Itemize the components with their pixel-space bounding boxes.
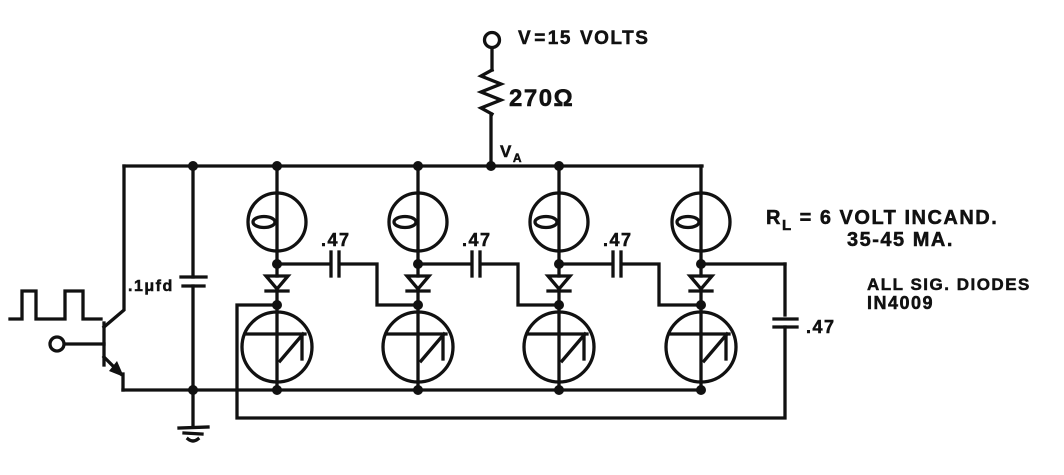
svg-text:.1μfd: .1μfd [128, 278, 174, 295]
svg-text:270Ω: 270Ω [509, 85, 574, 112]
wire: cathode bus [123, 388, 700, 391]
node: SCR 1 cathode on bus [272, 385, 282, 395]
terminal: V=15 supply [485, 33, 500, 48]
wire: stage 3 coupling upper [559, 262, 610, 265]
wire: bus to lamp 2 [416, 166, 419, 193]
capacitor C1 .1 mfd branch wire upper [191, 166, 194, 277]
transistor Q1 emitter with arrow [104, 357, 121, 374]
node: bus tap lamp 3 [554, 161, 564, 171]
node: anode junction 3 [554, 259, 564, 269]
waveform: input pulse train [10, 291, 101, 319]
capacitor .47 stage 1-2 [329, 252, 332, 276]
lamp L2 (R_L 6V incandescent) [389, 193, 447, 251]
wire: coupling step to stage 4 [624, 264, 701, 305]
node: SCR 2 cathode on bus [413, 385, 423, 395]
node: anode junction 2 [413, 259, 423, 269]
wire: coupling step to stage 3 [483, 264, 559, 305]
svg-text:.47: .47 [603, 230, 633, 250]
svg-text:V=15VOLTS: V=15VOLTS [518, 28, 649, 49]
node: SCR 3 cathode on bus [554, 385, 564, 395]
SCR 4 [666, 312, 736, 382]
wire: resistor to bus [489, 114, 492, 166]
wire: base lead [65, 342, 104, 345]
lamp L3 (R_L 6V incandescent) [530, 193, 588, 251]
node V_A [486, 161, 496, 171]
node: SCR 2 anode junction [413, 300, 423, 310]
diode D2 1N4009 [416, 264, 419, 276]
svg-text:ALL SIG. DIODES: ALL SIG. DIODES [867, 275, 1031, 294]
wire: top bus V_A rail [124, 164, 702, 167]
wire: coupling step to stage 2 [342, 264, 418, 305]
svg-text:.47: .47 [806, 317, 836, 337]
capacitor .47 stage 3-4 [611, 252, 614, 276]
diode D4 1N4009 [699, 264, 702, 276]
wire: feedback loop to stage 1 [237, 305, 785, 418]
wire: bus to lamp 3 [557, 166, 560, 193]
capacitor .47 stage 2-3 [470, 252, 473, 276]
wire: stage 4 to right rail [701, 262, 785, 265]
svg-text:35-45 MA.: 35-45 MA. [847, 229, 954, 251]
node: bus tap lamp 2 [413, 161, 423, 171]
SCR 3 [524, 312, 594, 382]
wire: bus to lamp 1 [275, 166, 278, 193]
resistor R 270 ohm [481, 70, 501, 114]
transistor Q1 base bar [102, 323, 105, 365]
node: bus tap lamp 1 [272, 161, 282, 171]
terminal: trigger input [50, 337, 64, 351]
diode D1 1N4009 [275, 264, 278, 276]
lamp L4 (R_L 6V incandescent) [672, 193, 730, 251]
node: anode junction 4 [696, 259, 706, 269]
node: SCR 4 cathode on bus [696, 385, 706, 395]
svg-text:.47: .47 [462, 230, 492, 250]
wire: lamp 4 to node [699, 251, 702, 264]
ground [179, 427, 208, 428]
capacitor .47 feedback [774, 317, 797, 320]
node: SCR 4 anode junction [696, 300, 706, 310]
wire: terminal to resistor [490, 48, 493, 70]
wire: emitter to cathode bus [121, 374, 124, 390]
SCR 2 [383, 312, 453, 382]
wire: stage 2 coupling upper [418, 262, 469, 265]
wire: lamp 2 to node [416, 251, 419, 264]
svg-text:.47: .47 [321, 230, 351, 250]
node: anode junction 1 [272, 259, 282, 269]
wire: left rail (collector) [104, 166, 124, 327]
node: SCR 1 anode junction [272, 300, 282, 310]
wire: bus to lamp 4 [699, 166, 702, 193]
lamp L1 (R_L 6V incandescent) [248, 193, 306, 251]
node: SCR 3 anode junction [554, 300, 564, 310]
svg-text:IN4009: IN4009 [867, 293, 934, 313]
wire: lamp 1 to node [275, 251, 278, 264]
SCR 1 [242, 312, 312, 382]
wire: C1 to bus and ground [191, 286, 194, 427]
capacitor C1 plates [181, 275, 206, 278]
diode D3 1N4009 [557, 264, 560, 276]
wire: stage 1 coupling upper [277, 262, 328, 265]
wire: lamp 3 to node [557, 251, 560, 264]
